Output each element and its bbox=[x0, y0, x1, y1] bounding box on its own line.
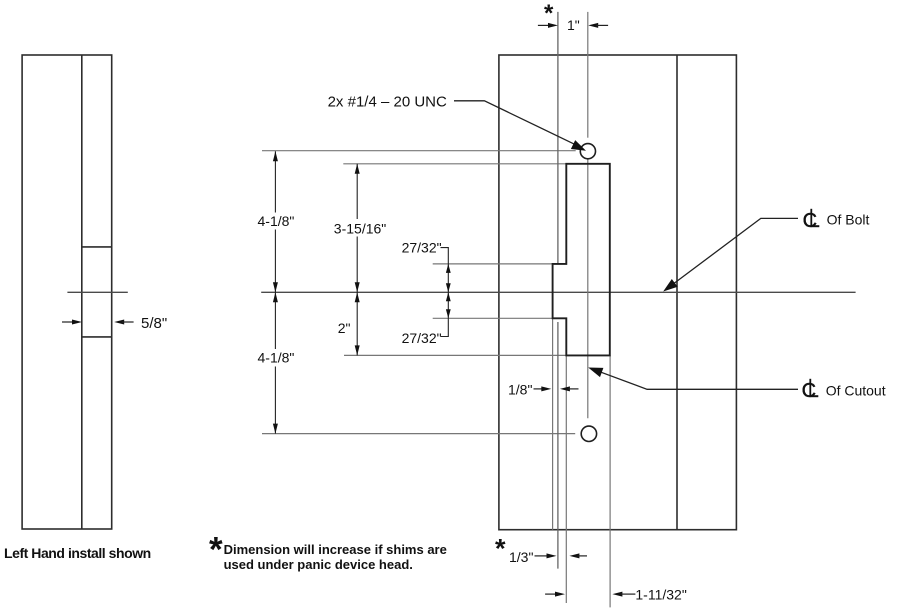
dimension 5/8 left arrowhead bbox=[72, 320, 82, 325]
svg-text:C: C bbox=[803, 210, 817, 232]
arrowhead 4-1/8 lower top bbox=[273, 292, 278, 302]
svg-text:Of Cutout: Of Cutout bbox=[826, 382, 886, 398]
dimension 5/8 left shaft bbox=[62, 321, 74, 323]
dimension 1/8 left arrowhead bbox=[541, 386, 551, 391]
notch edge extension below bbox=[552, 318, 554, 529]
door gap vertical line upper segment bbox=[557, 12, 559, 264]
svg-text:Of Bolt: Of Bolt bbox=[827, 212, 870, 228]
leader arrowhead Of Bolt bbox=[663, 279, 678, 292]
svg-text:1/3": 1/3" bbox=[509, 549, 533, 565]
extension line lower 27/32 bbox=[433, 317, 553, 319]
dimension line upper 27/32 vertical with jog bbox=[441, 248, 449, 293]
left door edge inner vertical line bbox=[81, 55, 83, 529]
left cutout top line bbox=[82, 246, 112, 248]
bolt hole circle upper bbox=[580, 144, 595, 159]
extension line top 4-1/8 bbox=[262, 150, 576, 152]
arrowhead 3-15/16 top bbox=[355, 164, 360, 174]
svg-text:1/8": 1/8" bbox=[508, 382, 532, 398]
svg-text:27/32": 27/32" bbox=[402, 330, 442, 346]
extension line bottom 4-1/8 bbox=[262, 433, 575, 435]
svg-text:*: * bbox=[544, 0, 554, 27]
extension line bottom 2in bbox=[344, 354, 566, 356]
dimension 1/3 left arrowhead bbox=[547, 553, 557, 558]
dimension 1in left arrowhead bbox=[548, 23, 558, 28]
svg-text:Dimension will increase if shi: Dimension will increase if shims are bbox=[224, 542, 447, 557]
cutout right edge extension below bbox=[609, 355, 611, 607]
dimension 1/3 left shaft bbox=[535, 555, 549, 557]
arrowhead 4-1/8 upper top bbox=[273, 151, 278, 161]
svg-text:2x #1/4 – 20 UNC: 2x #1/4 – 20 UNC bbox=[328, 93, 447, 110]
cutout left edge extension below bbox=[565, 355, 567, 603]
dimension 1-11/32 right arrowhead bbox=[612, 592, 622, 597]
dimension line lower 27/32 vertical with jog bbox=[441, 292, 449, 336]
extension line upper 27/32 bbox=[433, 263, 553, 265]
leader line UNC bbox=[454, 101, 577, 146]
svg-text:*: * bbox=[495, 534, 506, 564]
dimension 1/8 right arrowhead bbox=[560, 386, 570, 391]
svg-text:4-1/8": 4-1/8" bbox=[258, 350, 295, 366]
dimension text 4-1/8 lower bbox=[256, 349, 297, 367]
extension line top 3-15/16 bbox=[343, 163, 566, 165]
centerline symbol Of Cutout bbox=[802, 379, 819, 402]
left door edge outer rectangle bbox=[22, 55, 112, 529]
right frame inner vertical line bbox=[676, 55, 678, 530]
svg-text:*: * bbox=[209, 530, 223, 569]
svg-text:C: C bbox=[802, 380, 816, 402]
bolt centerline middle segment bbox=[587, 159, 589, 418]
arrowhead 2in top bbox=[355, 292, 360, 302]
arrowhead lower 27/32 bottom bbox=[446, 309, 451, 318]
left centerline bbox=[67, 291, 127, 293]
dimension 1-11/32 left arrowhead bbox=[555, 592, 565, 597]
left cutout bottom line bbox=[82, 336, 112, 338]
arrowhead upper 27/32 bottom bbox=[446, 283, 451, 292]
leader line Of Cutout bbox=[592, 369, 799, 390]
dimension 1in right shaft bbox=[596, 24, 608, 26]
arrowhead upper 27/32 top bbox=[446, 264, 451, 273]
dimension 1/3 right arrowhead bbox=[569, 553, 579, 558]
dimension 5/8 right shaft bbox=[122, 321, 134, 323]
svg-text:27/32": 27/32" bbox=[402, 240, 442, 256]
dimension 1-11/32 right shaft bbox=[621, 593, 636, 595]
dimension line 4-1/8 vertical bbox=[274, 151, 276, 433]
centerline symbol Of Bolt bbox=[803, 209, 820, 232]
dimension text 4-1/8 upper bbox=[256, 213, 297, 230]
arrowhead 3-15/16 bottom bbox=[355, 282, 360, 292]
svg-text:4-1/8": 4-1/8" bbox=[258, 213, 295, 229]
dimension 1/3 right shaft bbox=[578, 555, 588, 557]
door gap vertical line lower segment bbox=[557, 322, 559, 569]
svg-text:1-11/32": 1-11/32" bbox=[635, 587, 686, 603]
arrowhead 4-1/8 lower bottom bbox=[273, 424, 278, 434]
dimension 1/8 right shaft bbox=[568, 388, 579, 390]
dimension 1/8 left shaft bbox=[534, 388, 544, 390]
arrowhead 2in bottom bbox=[355, 345, 360, 355]
dimension line 3-15/16 and 2 vertical bbox=[356, 164, 358, 356]
svg-text:2": 2" bbox=[338, 320, 351, 336]
svg-text:1": 1" bbox=[567, 17, 580, 33]
svg-text:5/8": 5/8" bbox=[141, 315, 167, 332]
dimension 1in left shaft bbox=[538, 24, 550, 26]
svg-text:used under panic device head.: used under panic device head. bbox=[224, 557, 413, 572]
dimension 1-11/32 left shaft bbox=[545, 593, 557, 595]
dimension 5/8 right arrowhead bbox=[114, 320, 124, 325]
arrowhead 4-1/8 upper bottom bbox=[273, 282, 278, 292]
right frame outer rectangle bbox=[499, 55, 737, 530]
main centerline bbox=[261, 291, 855, 293]
leader line Of Bolt bbox=[668, 218, 798, 288]
dimension 1in right arrowhead bbox=[588, 23, 598, 28]
arrowhead lower 27/32 top bbox=[446, 292, 451, 301]
leader arrowhead UNC bbox=[571, 140, 586, 151]
cutout outline bbox=[553, 164, 610, 356]
leader arrowhead Of Cutout bbox=[588, 368, 603, 378]
dimension text 3-15/16 bbox=[333, 219, 387, 237]
svg-text:3-15/16": 3-15/16" bbox=[334, 220, 386, 236]
bolt centerline upper segment bbox=[587, 12, 589, 138]
bolt hole circle lower bbox=[581, 426, 596, 441]
svg-text:Left Hand install shown: Left Hand install shown bbox=[4, 545, 151, 561]
